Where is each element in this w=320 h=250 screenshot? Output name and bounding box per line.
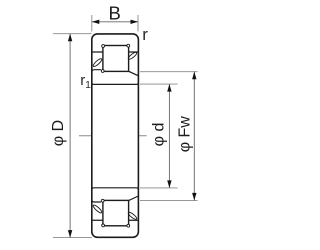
svg-text:B: B: [109, 3, 121, 24]
phiFw arrow bottom: [192, 193, 196, 201]
inner raceway slope (top section): [129, 71, 139, 75]
svg-text:φ d: φ d: [150, 123, 167, 147]
bearing outline (outer silhouette): [92, 34, 139, 237]
cage top-left: [92, 58, 103, 68]
cage top-right: [127, 51, 137, 60]
roller top section: [103, 46, 129, 72]
outer ring rib bore lines (bottom section): [92, 219, 139, 221]
phiFw extension top: [140, 71, 198, 73]
phiD dimension line: [69, 34, 71, 238]
phiD arrow bottom: [68, 230, 72, 238]
inner ring bore line (top section): [92, 82, 139, 84]
svg-text:φ Fw: φ Fw: [176, 116, 193, 153]
roller bottom section: [103, 200, 129, 225]
phiFw arrow top: [192, 72, 196, 80]
cage bottom-right: [127, 211, 137, 220]
B arrow left: [92, 20, 100, 24]
B dimension line: [92, 21, 138, 23]
svg-text:r: r: [142, 25, 148, 44]
cage bottom-left: [92, 204, 103, 214]
phid arrow top: [167, 84, 171, 92]
outer ring rib bore lines (top section): [92, 51, 139, 53]
inner ring bore line (bottom section): [92, 188, 139, 190]
inner raceway slope (bottom section): [129, 196, 139, 200]
phid extension top: [140, 83, 178, 85]
roller corner relief circles top section: [102, 45, 105, 48]
svg-text:φ D: φ D: [50, 120, 67, 146]
phiFw extension bottom: [140, 199, 198, 201]
centerline: [79, 135, 147, 137]
phiD extension bottom: [53, 237, 92, 239]
phid arrow bottom: [167, 180, 171, 188]
B dimension extension lines: [91, 15, 93, 32]
B arrow right: [131, 20, 139, 24]
phiD extension top: [53, 33, 92, 35]
phiD arrow top: [68, 34, 72, 42]
inner ring rib top (top section, r1 corner): [92, 70, 101, 73]
inner ring rib bottom (bottom section): [92, 200, 101, 202]
phid dimension line: [168, 84, 170, 188]
phiFw dimension line: [193, 72, 195, 201]
phid extension bottom: [140, 187, 178, 189]
roller corner relief circles bottom section: [102, 224, 105, 227]
